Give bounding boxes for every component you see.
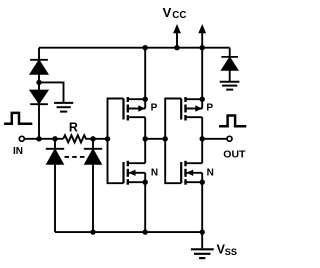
svg-text:N: N	[151, 168, 158, 179]
svg-text:R: R	[69, 120, 78, 134]
svg-text:P: P	[206, 103, 213, 114]
svg-text:V: V	[163, 5, 172, 20]
svg-text:P: P	[151, 103, 158, 114]
svg-text:OUT: OUT	[223, 148, 246, 160]
svg-text:CC: CC	[172, 10, 186, 21]
svg-text:IN: IN	[13, 146, 23, 157]
svg-text:N: N	[207, 168, 214, 179]
svg-text:SS: SS	[225, 247, 237, 257]
